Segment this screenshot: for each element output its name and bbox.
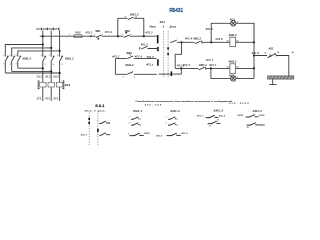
svg-text:1: 1 — [129, 117, 130, 119]
contactor KM1.2 contact C — [18, 56, 21, 68]
svg-text:4ПХХ: 4ПХХ — [144, 132, 150, 135]
thermal contact KK1 — [267, 53, 276, 58]
svg-text:А2: А2 — [236, 40, 238, 43]
control wire main — [40, 35, 157, 37]
svg-text:2: 2 — [45, 64, 46, 66]
svg-text:Дист: Дист — [169, 26, 177, 28]
remote branch box SB3 / KM1.2 — [115, 59, 156, 75]
svg-text:3: 3 — [10, 55, 11, 57]
contactor KM1.2 contact B — [11, 56, 14, 71]
free contact group4 row1 — [238, 114, 266, 118]
svg-text:4П1.6: 4П1.6 — [206, 28, 214, 31]
svg-text:2: 2 — [177, 119, 178, 121]
svg-text:КМ1.3: КМ1.3 — [214, 109, 224, 113]
svg-text:ХХХ, ХХХХ: ХХХ, ХХХХ — [228, 103, 249, 105]
node phase2 tap — [50, 47, 52, 49]
lamp HL1 — [231, 21, 236, 26]
svg-text:4: 4 — [53, 64, 54, 66]
svg-text:4П1.4: 4П1.4 — [185, 38, 193, 41]
node phase3 tap — [59, 50, 61, 52]
svg-text:Свободные контакты для выдачи: Свободные контакты для выдачи сигналов с… — [135, 100, 233, 103]
pushbutton SB2 — [124, 32, 130, 37]
node phase1 tap — [42, 43, 44, 45]
crossover wire to phase3 — [5, 72, 59, 74]
svg-text:4П1Х: 4П1Х — [259, 114, 265, 117]
auxiliary contact KM1.3 — [128, 17, 133, 19]
svg-text:4П1.Х: 4П1.Х — [181, 132, 188, 135]
free contact KM1.3 row2 — [208, 120, 221, 128]
svg-text:4П1.2: 4П1.2 — [105, 31, 113, 34]
svg-text:КМ1.1: КМ1.1 — [199, 63, 207, 67]
contactor KM1.1 contact B — [51, 56, 54, 61]
svg-text:4П1.9: 4П1.9 — [252, 52, 260, 55]
selector table mark 1b — [88, 122, 90, 125]
free contact group4 row2 — [247, 122, 266, 128]
selector SA1 closed mark upper — [157, 35, 159, 43]
svg-text:4: 4 — [237, 22, 238, 24]
node lamp HL2 tap — [210, 67, 212, 69]
svg-text:КК1: КК1 — [65, 83, 71, 87]
bus right vertical — [253, 23, 255, 78]
svg-text:3: 3 — [123, 77, 124, 79]
svg-text:1Л1: 1Л1 — [36, 29, 41, 31]
wire lamp HL1 branch — [211, 23, 254, 42]
svg-text:4П1.8: 4П1.8 — [177, 64, 185, 67]
svg-text:4П1.1: 4П1.1 — [85, 32, 93, 35]
svg-text:Мест. 0. Дист.: Мест. 0. Дист. — [85, 111, 106, 113]
svg-text:14: 14 — [135, 17, 137, 19]
fuse FU1 — [74, 35, 82, 38]
node join1 — [42, 67, 44, 69]
svg-text:1: 1 — [41, 55, 42, 57]
node join2 — [50, 70, 52, 72]
svg-text:НL2: НL2 — [229, 73, 235, 77]
phase wire L2 — [50, 31, 52, 102]
crossover wire to phase2 — [12, 70, 52, 72]
node control tap — [42, 35, 44, 37]
selector SA1 upper contact — [170, 40, 181, 42]
svg-text:SA1: SA1 — [160, 20, 166, 24]
contactor KM1.1 contact A — [43, 56, 46, 61]
svg-text:КМ1.2: КМ1.2 — [193, 37, 201, 41]
node upper branch split — [180, 41, 182, 43]
svg-text:1: 1 — [166, 117, 167, 119]
svg-text:1: 1 — [94, 34, 95, 36]
svg-text:КМ1.2: КМ1.2 — [229, 60, 237, 64]
svg-text:95: 95 — [264, 53, 266, 55]
svg-text:Месн: Месн — [150, 26, 157, 28]
svg-text:FU1: FU1 — [75, 30, 81, 34]
ground leg — [269, 79, 276, 85]
svg-text:5: 5 — [128, 133, 129, 135]
svg-text:4: 4 — [130, 34, 131, 36]
pushbutton SB3 — [128, 54, 134, 58]
svg-text:43: 43 — [247, 127, 249, 129]
svg-text:КМ1.2: КМ1.2 — [125, 63, 134, 67]
svg-text:4П1Х: 4П1Х — [238, 114, 244, 117]
svg-text:4Т2: 4Т2 — [45, 98, 50, 101]
svg-text:13: 13 — [124, 17, 126, 19]
interlock contact KM1.2 — [195, 41, 202, 44]
svg-text:4П1.8: 4П1.8 — [219, 115, 226, 118]
svg-text:SБ3: SБ3 — [126, 51, 132, 55]
free contact KM1.1 row2 — [129, 123, 141, 127]
svg-text:SB1: SB1 — [95, 29, 101, 33]
svg-text:4П1.Х: 4П1.Х — [156, 134, 163, 137]
node KM1.3 branch left — [117, 35, 119, 37]
svg-text:SБ2: SБ2 — [125, 29, 131, 33]
svg-text:5: 5 — [57, 55, 58, 57]
tap wire phase2 to reverse group — [12, 48, 52, 57]
phase wire L3 — [59, 31, 61, 102]
wire lower branch — [175, 67, 254, 69]
interlock contact KM1.1 — [199, 67, 206, 70]
svg-text:4: 4 — [134, 77, 135, 79]
node bus lower — [253, 67, 255, 69]
free contact KM1.1 row3 — [128, 132, 151, 136]
coil KM1.1 — [230, 37, 236, 47]
svg-text:КМ1.1: КМ1.1 — [65, 56, 74, 60]
svg-text:НL1: НL1 — [230, 17, 236, 21]
selector SA1 mark bar2 — [157, 59, 159, 66]
svg-text:6Т3: 6Т3 — [54, 99, 59, 101]
svg-text:4П1.3: 4П1.3 — [145, 32, 153, 35]
svg-text:КМ1.1: КМ1.1 — [133, 109, 143, 113]
svg-text:4: 4 — [177, 125, 178, 127]
selector SA1 position line 2 — [167, 31, 169, 78]
svg-text:Я5431: Я5431 — [169, 8, 183, 14]
svg-text:4П1.4: 4П1.4 — [135, 56, 143, 59]
svg-text:3/L2: 3/L2 — [45, 76, 51, 78]
svg-text:5/L3: 5/L3 — [53, 76, 59, 78]
node bus kk1 — [253, 54, 255, 56]
svg-text:2: 2 — [140, 119, 141, 121]
svg-text:1/L1: 1/L1 — [37, 76, 43, 78]
svg-text:4П1.6: 4П1.6 — [215, 38, 223, 41]
svg-text:А1: А1 — [227, 66, 229, 69]
svg-text:4П1.2: 4П1.2 — [112, 56, 120, 59]
svg-text:А1: А1 — [227, 40, 229, 43]
selector SA1 mark a — [167, 47, 169, 49]
wire lamp HL2 branch — [211, 68, 254, 78]
selector SA1 mark b — [167, 53, 169, 55]
svg-text:4П1.7: 4П1.7 — [209, 64, 217, 67]
selector table line 1 — [88, 113, 90, 147]
svg-text:КМ1.1: КМ1.1 — [229, 33, 237, 37]
svg-text:КМ1.2: КМ1.2 — [22, 56, 31, 60]
svg-text:23: 23 — [209, 125, 211, 127]
svg-text:ХХХ, ХХХ: ХХХ, ХХХ — [144, 104, 162, 106]
thermal relay KK1 heater 1 — [40, 82, 46, 87]
svg-text:4П1.5: 4П1.5 — [141, 44, 149, 47]
node KM1.3 branch right — [143, 35, 145, 37]
free contact KM1.2 row1 — [166, 117, 178, 121]
selector SA1 mark bar3 — [171, 71, 173, 76]
thermal relay KK1 heater 2 — [48, 82, 54, 87]
svg-text:4: 4 — [140, 125, 141, 127]
free contact KM1.2 row2 — [166, 123, 178, 127]
free contact KM1.3 row1 — [197, 115, 226, 119]
svg-text:КМ1.2: КМ1.2 — [253, 109, 263, 113]
coil KM1.2 — [230, 64, 236, 74]
contactor KM1.1 contact C — [59, 56, 62, 61]
svg-text:1: 1 — [3, 55, 4, 57]
svg-text:6: 6 — [16, 64, 17, 66]
free contact KM1.2 row3 — [156, 132, 188, 137]
free contact KM1.1 row1 — [129, 117, 141, 121]
svg-text:5: 5 — [16, 55, 17, 57]
svg-text:2Т1: 2Т1 — [36, 99, 42, 101]
selector table mark 2 — [97, 129, 99, 133]
selector SA1 lower contact — [140, 46, 158, 49]
node lamp HL1 tap — [210, 41, 212, 43]
svg-text:3: 3 — [129, 123, 130, 125]
node join3 — [59, 72, 61, 74]
svg-text:2: 2 — [3, 64, 4, 66]
ground busbar — [268, 76, 294, 79]
thermal relay KK1 bracket — [38, 81, 64, 89]
contactor KM1.2 contact A — [5, 56, 8, 73]
svg-text:4П1.х: 4П1.х — [146, 64, 154, 67]
wire bar2 to bar3 — [159, 73, 171, 75]
wire KK1 branch — [254, 56, 289, 76]
thermal relay KK1 terminal labels — [37, 76, 60, 78]
selector table contact 1 — [99, 121, 110, 124]
svg-text:3: 3 — [166, 123, 167, 125]
svg-text:КК1: КК1 — [269, 47, 274, 51]
tap wire phase3 to reverse group — [18, 51, 60, 57]
auxiliary contact KM1.2 hold — [128, 72, 134, 74]
selector SA1 position line 1 — [163, 31, 165, 78]
motor terminal labels — [36, 98, 59, 101]
selector table line 2 — [97, 113, 99, 147]
wire upper branch — [182, 41, 255, 43]
selector table contact 2 — [99, 133, 110, 136]
thermal relay KK1 heater 3 — [56, 82, 62, 87]
lamp HL2 — [231, 76, 236, 81]
svg-text:4П1.1: 4П1.1 — [81, 133, 87, 136]
node after fuse — [90, 35, 92, 37]
crossover wire to phase1 — [18, 67, 43, 69]
pushbutton SB1 — [96, 35, 102, 39]
terminal separator ticks — [42, 28, 60, 31]
svg-text:1: 1 — [69, 34, 70, 36]
tap wire phase1 to reverse group — [5, 45, 43, 57]
svg-text:4П1.7: 4П1.7 — [206, 59, 214, 62]
svg-text:6: 6 — [62, 64, 63, 66]
svg-text:SA1: SA1 — [95, 103, 105, 108]
svg-text:4П1.7: 4П1.7 — [197, 115, 204, 118]
svg-text:3: 3 — [122, 34, 123, 36]
wire bar3 to lower branch — [172, 68, 181, 74]
svg-text:КМ1.2: КМ1.2 — [170, 109, 180, 113]
terminal labels top-left — [36, 29, 59, 31]
svg-text:96: 96 — [277, 52, 279, 54]
wire jog to lower branch — [175, 42, 181, 68]
phase wire L1 — [42, 31, 44, 102]
node remote join — [180, 67, 182, 69]
selector table mark 1a — [88, 118, 90, 120]
selector SA1 mark bar row2 — [157, 47, 159, 51]
svg-text:4: 4 — [237, 77, 238, 79]
node bus upper — [253, 41, 255, 43]
svg-text:4: 4 — [10, 64, 11, 66]
svg-text:3: 3 — [49, 55, 50, 57]
svg-text:4ПХ: 4ПХ — [260, 124, 265, 127]
svg-text:2: 2 — [102, 34, 103, 36]
svg-text:А2: А2 — [236, 66, 238, 69]
wire KM1.3 branch left — [118, 18, 144, 36]
pin ticks power contacts — [7, 55, 63, 57]
svg-text:24: 24 — [217, 120, 219, 122]
